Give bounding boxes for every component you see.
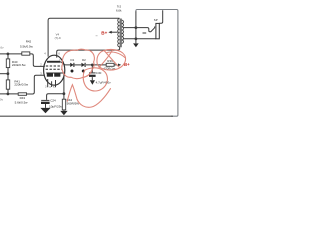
wire cathode to C24 <box>47 94 64 100</box>
ground below R44 <box>60 111 67 115</box>
tube V4 envelope <box>44 55 65 85</box>
svg-text:220k/0.5w: 220k/0.5w <box>14 83 29 87</box>
svg-text:4: 4 <box>44 52 46 56</box>
wire secondary tap1 to jack contact <box>123 26 154 31</box>
node cathode junction <box>63 92 66 95</box>
node screen supply junction <box>91 64 94 67</box>
svg-text:C24: C24 <box>50 98 56 102</box>
svg-text:R42: R42 <box>26 40 32 44</box>
wire heater stub 1 <box>48 79 56 87</box>
node secondary tap1 junction <box>135 26 138 29</box>
svg-text:SP: SP <box>154 18 158 22</box>
red peak mark <box>67 85 77 102</box>
wire C24 stem <box>45 104 47 108</box>
wire C30 stem to ground <box>91 77 93 80</box>
resistor R42 <box>22 52 30 55</box>
wire cathode riser <box>63 74 65 99</box>
tube grid row 1 <box>46 65 63 67</box>
wire C30 riser <box>91 65 93 73</box>
transformer secondary winding <box>122 20 124 43</box>
svg-text:0.6v: 0.6v <box>0 45 4 49</box>
svg-text:D1: D1 <box>71 58 75 62</box>
wire R42 to grid <box>30 54 45 67</box>
wire screen to transformer bottom <box>57 47 120 58</box>
tube heater block 1 <box>47 74 53 77</box>
tube heater block 2 <box>54 74 60 77</box>
wire plate top loop to transformer <box>48 18 119 56</box>
red cloud around C30 <box>83 68 107 91</box>
node divider junction <box>7 72 10 75</box>
svg-text:C30: C30 <box>96 71 102 75</box>
wire bottom-left rail y94 <box>0 75 45 94</box>
red loop around R39 <box>97 49 126 70</box>
wire input rail y54 <box>0 53 22 55</box>
wire D1-D2 <box>75 64 82 66</box>
red swirl stroke 3 <box>107 52 125 57</box>
asterisk under D2 <box>82 69 85 72</box>
resistor R41 <box>6 80 9 89</box>
svg-text:R43: R43 <box>20 96 26 100</box>
red swirl stroke 2 <box>105 51 120 67</box>
tube plate bar <box>47 61 60 63</box>
diode D1 <box>70 63 74 67</box>
resistor R44 <box>62 99 65 110</box>
wire divider tap left <box>0 73 8 75</box>
svg-text:3: 3 <box>45 87 47 89</box>
tube grid row 2 <box>46 68 63 70</box>
svg-text:6,6k: 6,6k <box>116 9 122 13</box>
wire grid-leak rail x8 <box>7 54 9 94</box>
svg-text:560R/5W: 560R/5W <box>67 101 80 105</box>
svg-text:10µF/25v: 10µF/25v <box>49 105 62 109</box>
arrow to B+ (bottom, pointing right) <box>118 64 121 67</box>
ground below C30 <box>90 80 95 85</box>
svg-text:5.6k/0.5w: 5.6k/0.5w <box>15 101 29 105</box>
panel border (gray, right side) <box>136 10 178 117</box>
wire plate to D1 <box>60 62 70 65</box>
svg-text:B+: B+ <box>101 30 107 35</box>
svg-text:(7)-9: (7)-9 <box>55 36 61 40</box>
ground below transformer secondary <box>133 43 139 47</box>
wire R39 to arrow <box>114 64 117 66</box>
capacitor C30 <box>89 72 96 74</box>
node input junction <box>7 53 10 56</box>
resistor R39 <box>106 63 114 66</box>
tube cathode bar <box>46 72 64 74</box>
ground below C24 <box>40 108 50 113</box>
wire R44 stem to ground <box>63 110 65 111</box>
svg-text:6: 6 <box>58 52 60 56</box>
red swirl stroke 1 <box>99 50 113 68</box>
wire open contact stub <box>143 32 147 34</box>
node secondary tap3 junction <box>135 37 138 40</box>
wire secondary tap3 to jack bottom <box>123 38 155 40</box>
svg-text:30v: 30v <box>0 98 4 102</box>
bottom border line <box>0 115 173 117</box>
svg-text:5: 5 <box>53 87 55 89</box>
svg-text:4: 4 <box>49 87 51 89</box>
arrow to B+ (top, pointing left) <box>108 31 111 34</box>
svg-text:4,7µF/450v: 4,7µF/450v <box>96 81 112 85</box>
asterisk under D1 <box>70 69 85 72</box>
svg-text:2: 2 <box>40 62 42 66</box>
wire cropped vertical through taps <box>135 11 137 43</box>
red cloud around D1 D2 <box>62 49 95 78</box>
wire D2 to R39 <box>86 64 106 66</box>
red annotation scribbles <box>62 49 126 107</box>
speaker jack SP body <box>156 23 159 38</box>
capacitor C24 <box>41 99 49 101</box>
red smile arc <box>77 89 110 108</box>
wire B+ feed to primary <box>111 31 117 33</box>
svg-text:5.5k/0.5w: 5.5k/0.5w <box>20 44 34 48</box>
diode D2 <box>81 63 85 67</box>
node bottom rail junction <box>7 93 10 96</box>
transformer Tr2 primary winding <box>118 19 120 47</box>
resistor R40 <box>6 59 9 68</box>
svg-text:D2: D2 <box>82 58 86 62</box>
wire cropped vertical to speaker jack <box>159 10 162 23</box>
transformer core <box>120 19 121 48</box>
resistor R43 <box>18 93 26 96</box>
stray gray mark <box>96 35 98 37</box>
svg-text:220k/0.5w: 220k/0.5w <box>12 63 27 67</box>
